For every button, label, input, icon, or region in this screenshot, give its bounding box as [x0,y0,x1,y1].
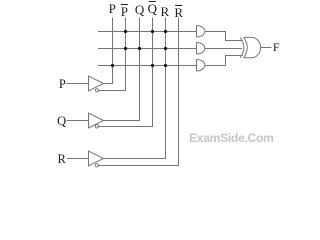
svg-text:F: F [273,40,280,54]
AND gate G1 [197,26,205,38]
svg-text:Q: Q [148,1,158,16]
junction dot row3-R [164,64,167,67]
junction dot row1-Pbar [124,30,127,33]
wire: R bus vertical [104,18,166,159]
wire: product row 3 [98,65,197,67]
wire: Qbar bus vertical [99,18,153,127]
wire: F output [261,47,272,49]
svg-text:P: P [109,1,116,16]
svg-text:P: P [121,4,128,19]
junction dot row1-Qbar [151,30,154,33]
junction dot row2-Q [138,47,141,50]
AND gate G3 [197,60,205,72]
wire: P input [67,83,89,85]
junction dot row1-R [164,30,167,33]
junction dot row3-Qbar [151,64,154,67]
svg-text:Q: Q [57,114,66,128]
AND gate G2 [197,43,205,55]
wire: Rbar bus vertical [99,18,179,166]
wire: Pbar bus vertical [99,18,126,91]
buffer/inverter U2 (Q) [89,113,104,128]
svg-text:R: R [160,4,169,19]
junction dot row2-Pbar [124,47,127,50]
wire: P bus vertical [104,18,113,84]
svg-text:ExamSide.Com: ExamSide.Com [189,131,274,145]
wire: G1 output to XOR [205,32,243,41]
svg-text:R: R [58,152,67,166]
svg-text:P: P [59,77,66,91]
junction dot row3-P [111,64,114,67]
buffer/inverter U3 (R) [89,151,104,167]
svg-text:Q: Q [135,2,145,17]
junction dot row2-R [164,47,167,50]
node label Qbar (bus) [148,1,158,16]
wire: product row 2 [98,48,197,50]
node label Rbar (bus) [174,5,183,20]
node label Pbar (bus) [121,4,128,19]
wire: product row 1 [98,31,197,33]
wire: R input [67,158,89,160]
wire: G3 output to XOR [205,56,243,66]
wire: Q bus vertical [104,18,140,121]
XOR gate G4 [240,37,260,57]
buffer/inverter U1 (P) [89,76,104,92]
wire: G2 output to XOR [205,48,242,50]
wire: Q input [67,120,89,122]
